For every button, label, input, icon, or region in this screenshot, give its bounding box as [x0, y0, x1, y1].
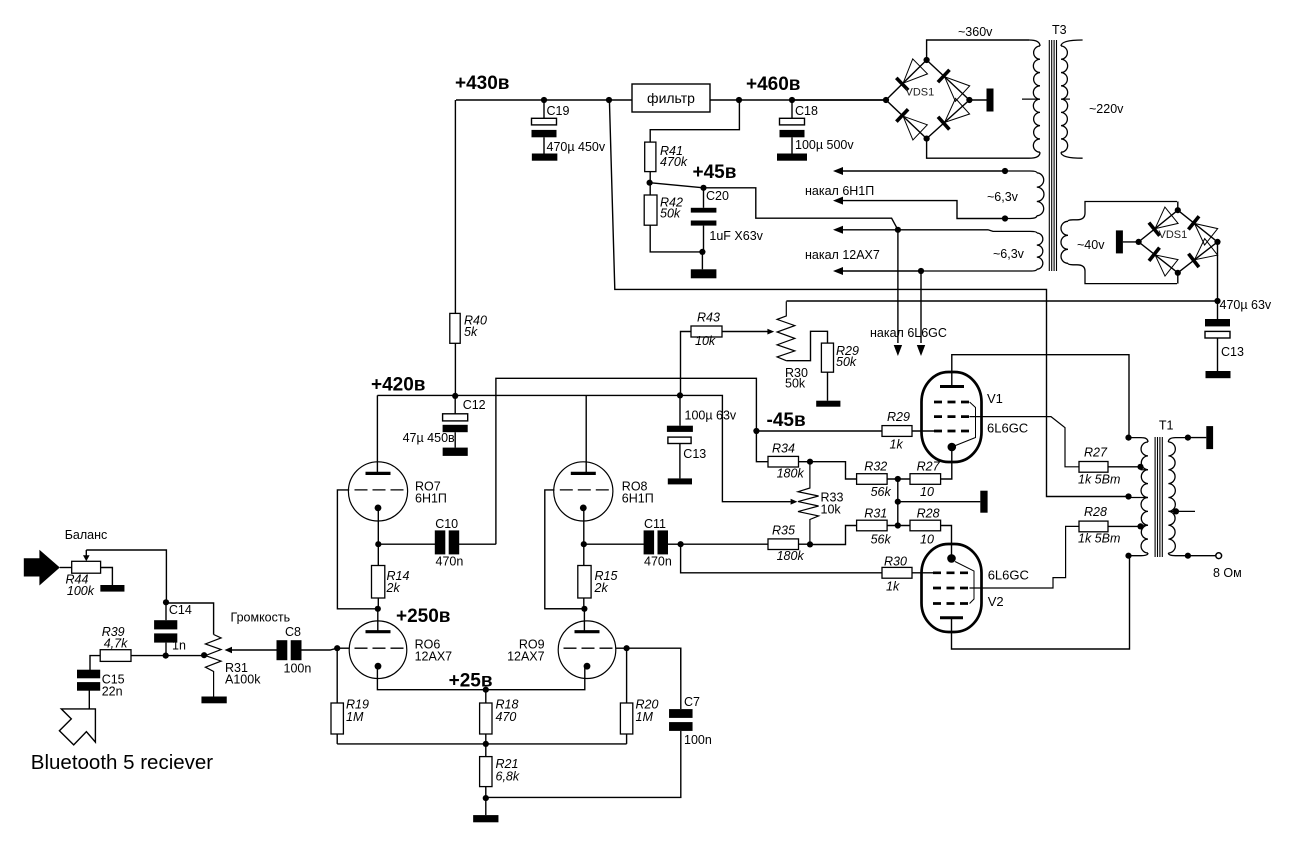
wire RO9 anode to RO8 grid: [545, 608, 585, 610]
svg-text:VDS1: VDS1: [906, 87, 935, 99]
capacitor C20 1uF: [703, 188, 705, 208]
potentiometer R33 10k: [798, 462, 819, 545]
svg-text:50k: 50k: [836, 355, 857, 369]
svg-text:A100k: A100k: [225, 673, 261, 687]
node RO6 grid: [334, 645, 340, 651]
svg-text:6Н1П: 6Н1П: [415, 491, 447, 505]
svg-text:накал 6Н1П: накал 6Н1П: [805, 184, 874, 198]
svg-text:1k 5Вт: 1k 5Вт: [1078, 532, 1120, 546]
RO7 cathode wire: [377, 507, 379, 544]
diode VDS1 upper-right: [938, 70, 950, 82]
svg-text:1M: 1M: [346, 710, 364, 724]
svg-text:C11: C11: [644, 517, 666, 531]
RO6 cathode wire: [377, 667, 485, 690]
wire R43 to R30 pot wiper: [722, 331, 768, 333]
R31 wiper arrow from C8: [231, 649, 284, 651]
tube V1 6L6GC: [922, 372, 982, 462]
resistor R29 1k grid stopper V1: [756, 430, 882, 432]
wire C10 to V1 grid line: [459, 543, 496, 545]
transformer T3 primary winding ~360v side: [1029, 40, 1040, 46]
transformer T3 aux winding ~40v: [1068, 202, 1177, 222]
node T1 tap R27: [1137, 464, 1143, 470]
node T1 primary bottom: [1125, 553, 1131, 559]
svg-text:+45в: +45в: [693, 162, 737, 183]
tube RO8: [585, 395, 587, 473]
svg-text:Баланс: Баланс: [65, 528, 108, 542]
svg-text:56k: 56k: [871, 485, 892, 499]
resistor R32 56k: [857, 474, 888, 485]
svg-text:R34: R34: [772, 441, 795, 455]
output terminal 8 Ohm: [1188, 555, 1216, 557]
node R32-R27 junction: [895, 476, 901, 482]
svg-text:10: 10: [920, 533, 934, 547]
wire R41/R42 junction to C20: [650, 183, 704, 188]
capacitor C11 470n: [584, 543, 644, 545]
wire C18 to bridge: [792, 99, 886, 101]
svg-text:100n: 100n: [684, 733, 712, 747]
resistor R27 1k 5W: [1079, 462, 1108, 473]
node R35 right: [807, 541, 813, 547]
resistor R40 5k: [450, 313, 460, 343]
svg-text:50k: 50k: [660, 207, 681, 221]
svg-text:R30: R30: [884, 555, 907, 569]
capacitor C7 100n: [627, 648, 681, 680]
svg-text:8 Ом: 8 Ом: [1213, 566, 1242, 580]
svg-text:~220v: ~220v: [1089, 102, 1124, 116]
svg-text:R27: R27: [917, 460, 941, 474]
ground bar mid: [980, 491, 987, 513]
resistor R41 470k: [645, 142, 656, 172]
node C20 top: [700, 185, 706, 191]
wire to ground bar: [898, 501, 981, 503]
V1 grids: [934, 401, 970, 404]
capacitor C10 470n: [378, 543, 435, 545]
svg-text:470µ 450v: 470µ 450v: [547, 140, 606, 154]
svg-text:12AX7: 12AX7: [415, 650, 453, 664]
svg-text:R28: R28: [1084, 505, 1107, 519]
node loudness tap: [201, 652, 207, 658]
label +420в stage: tube RO7: [376, 395, 378, 473]
node volume top: [163, 599, 169, 605]
svg-text:фильтр: фильтр: [647, 90, 695, 106]
wire V1 grid line from C10: [496, 378, 757, 544]
V1 plate: [940, 385, 964, 388]
svg-text:470k: 470k: [660, 155, 688, 169]
resistor R30 1k grid stopper V2: [681, 544, 882, 573]
svg-text:Bluetooth 5 reciever: Bluetooth 5 reciever: [31, 751, 214, 774]
ground at bias bridge left: [1123, 241, 1139, 243]
node heater1 bottom: [1002, 215, 1008, 221]
ground below C20: [701, 252, 703, 269]
R44 right to ground: [101, 568, 113, 586]
node C20 bottom: [699, 249, 705, 255]
ground below C13 470u: [1206, 371, 1231, 378]
diode VDS1 lower-left: [896, 109, 908, 121]
wire heater 6L6GC line 2: [920, 271, 922, 343]
ground below R31: [201, 697, 226, 704]
V2 grids: [933, 571, 970, 574]
node RO7 cathode / C10: [375, 541, 381, 547]
tube V2 6L6GC: [922, 544, 982, 632]
RO7 grid wire SRPP: [337, 490, 377, 609]
node +25v: [483, 687, 489, 693]
resistor R43 10k: [681, 332, 692, 396]
svg-text:1k: 1k: [886, 580, 900, 594]
node mid ground junction: [895, 499, 901, 505]
svg-text:1uF X63v: 1uF X63v: [709, 229, 763, 243]
capacitor C19: [541, 97, 547, 103]
node VDS1 vertices: [883, 97, 889, 103]
wire to R31 pot top: [166, 603, 214, 635]
svg-text:C18: C18: [795, 104, 818, 118]
svg-text:T3: T3: [1052, 23, 1067, 37]
node heater2 top: [895, 227, 901, 233]
ground below C18: [777, 154, 807, 161]
potentiometer R30 50k: [777, 301, 795, 360]
node T1 tap R28: [1137, 523, 1143, 529]
transformer T1 core: [1154, 437, 1156, 557]
svg-text:R28: R28: [917, 507, 940, 521]
svg-text:1k 5Вт: 1k 5Вт: [1078, 473, 1120, 487]
resistor R39 4,7k: [100, 650, 131, 662]
node T1 secondary bottom: [1185, 553, 1191, 559]
RO8 grid wire SRPP: [545, 490, 585, 609]
svg-text:C14: C14: [169, 603, 192, 617]
svg-text:R43: R43: [697, 311, 720, 325]
resistor R28 1k 5W: [1079, 521, 1108, 532]
svg-text:T1: T1: [1159, 419, 1174, 433]
tube RO9 12AX7: [583, 609, 585, 631]
node T1 primary top: [1125, 435, 1131, 441]
heater winding 12AX7 ~6,3v: [898, 230, 1037, 233]
wire heater 12AX7 bottom arrow: [840, 270, 921, 272]
node C12 +420v: [452, 393, 458, 399]
svg-text:22n: 22n: [102, 685, 123, 699]
svg-text:56k: 56k: [871, 533, 892, 547]
svg-text:R35: R35: [772, 524, 795, 538]
resistor R15 2k: [583, 544, 585, 565]
svg-text:R31: R31: [864, 507, 887, 521]
wire bridge bottom to transformer: [927, 139, 1029, 159]
potentiometer R31 A100k: [205, 635, 221, 697]
bridge rectifier VDS1 main: [886, 60, 927, 100]
svg-text:1M: 1M: [636, 710, 654, 724]
ground at bridge right: [969, 99, 986, 101]
diode VDS1 upper-left: [896, 78, 908, 90]
svg-text:~360v: ~360v: [958, 25, 993, 39]
svg-text:VDS1: VDS1: [1159, 229, 1188, 241]
tube RO6 12AX7: [377, 609, 379, 631]
node -45v rail right end: [1214, 298, 1220, 304]
svg-text:+430в: +430в: [455, 73, 509, 94]
resistor R42 50k: [649, 183, 651, 195]
wire +420v node to bias divider node: [377, 394, 680, 396]
svg-text:6L6GC: 6L6GC: [987, 421, 1028, 436]
diode VDS1b lower-right: [1189, 254, 1199, 267]
ground below R29 50k: [816, 401, 840, 407]
node heater2 bottom: [918, 268, 924, 274]
diode VDS1 lower-right: [938, 117, 949, 130]
resistor R19 1M: [336, 648, 338, 703]
wire +460v rail drop: [609, 100, 1128, 497]
node R34 right: [807, 459, 813, 465]
input arrow: [24, 550, 60, 586]
potentiometer R44 100k: [60, 567, 72, 569]
wire C14 to tap: [166, 655, 205, 657]
svg-text:~6,3v: ~6,3v: [987, 190, 1019, 204]
wire +45v to heater bus: [704, 188, 898, 230]
transformer T1 primary: [1129, 438, 1149, 442]
wire C7 to ground bus: [486, 731, 681, 797]
resistor R14 2k: [377, 544, 379, 565]
transformer T3 secondary ~220v: [1061, 40, 1083, 46]
svg-text:+460в: +460в: [746, 74, 800, 95]
svg-text:R27: R27: [1084, 446, 1108, 460]
arrow heater 6N1P bottom: [833, 197, 843, 205]
svg-text:R32: R32: [864, 460, 887, 474]
svg-text:1k: 1k: [890, 438, 904, 452]
node R31-R28 junction: [895, 522, 901, 528]
capacitor C8 100n: [277, 640, 288, 660]
node R41-R42 junction: [647, 180, 653, 186]
svg-text:470µ 63v: 470µ 63v: [1220, 298, 1272, 312]
diode VDS1b upper-right: [1188, 216, 1199, 229]
svg-text:V2: V2: [988, 594, 1004, 609]
resistor R28 10: [910, 520, 941, 531]
svg-text:+420в: +420в: [371, 375, 425, 396]
svg-text:V1: V1: [987, 391, 1003, 406]
node R43 / C13 100u junction: [677, 392, 683, 398]
svg-text:10: 10: [920, 485, 934, 499]
node R21 bottom: [483, 795, 489, 801]
transformer T3 core: [1048, 40, 1050, 271]
svg-text:100k: 100k: [67, 584, 95, 598]
svg-text:C10: C10: [435, 517, 458, 531]
resistor R21 6,8k: [485, 744, 487, 757]
node filter output junction: [736, 97, 742, 103]
wire R28 to V2 cathode: [941, 526, 952, 559]
svg-text:C13: C13: [1221, 345, 1244, 359]
node C14 bottom: [163, 653, 169, 659]
svg-text:2k: 2k: [594, 581, 609, 595]
capacitor C13 100µ 63v: [679, 395, 681, 425]
V2 cathode: [947, 554, 956, 563]
svg-text:12AX7: 12AX7: [507, 650, 545, 664]
RO6 grid lead: [337, 647, 349, 649]
svg-text:накал 12AX7: накал 12AX7: [805, 248, 880, 262]
svg-text:6,8k: 6,8k: [496, 770, 520, 784]
svg-text:5k: 5k: [464, 325, 478, 339]
resistor R31 56k: [810, 526, 857, 545]
svg-text:10k: 10k: [695, 334, 716, 348]
R44 wiper: [85, 550, 87, 556]
svg-text:470n: 470n: [644, 555, 672, 569]
svg-text:C7: C7: [684, 695, 700, 709]
svg-text:C12: C12: [463, 398, 486, 412]
svg-text:6L6GC: 6L6GC: [988, 568, 1029, 583]
wire R44 wiper to volume: [86, 550, 166, 602]
svg-text:Громкость: Громкость: [231, 611, 291, 625]
node T1 secondary top: [1185, 435, 1191, 441]
diode VDS1b upper-left: [1149, 223, 1160, 236]
wire bridge top to transformer ~360v: [927, 40, 1029, 60]
wire +430v rail down to R40: [454, 100, 456, 313]
node VDS1b vertices: [1136, 239, 1142, 245]
ground below C13 100u: [668, 478, 692, 484]
svg-text:C20: C20: [706, 189, 729, 203]
wire +430v top rail: [456, 99, 632, 101]
svg-text:2k: 2k: [386, 581, 401, 595]
wire filter output to R41: [650, 100, 739, 142]
svg-text:470: 470: [496, 710, 517, 724]
V2 screen wire to R28 1k: [970, 526, 1080, 588]
wire cathode resistor bus: [337, 743, 626, 745]
wire junction to R34: [756, 431, 768, 462]
arrow heater 6N1P top: [833, 167, 843, 175]
wire R27 to V1 cathode: [941, 447, 952, 479]
RO8 cathode wire: [583, 507, 585, 544]
capacitor C15 22n: [77, 670, 100, 679]
svg-text:-45в: -45в: [767, 410, 806, 431]
node T1 center tap: [1125, 493, 1131, 499]
wire heater 6N1P bottom: [840, 201, 1005, 219]
svg-text:50k: 50k: [785, 377, 806, 391]
svg-text:~40v: ~40v: [1077, 238, 1105, 252]
svg-text:R29: R29: [887, 410, 910, 424]
wire C11 to R35 node: [668, 543, 681, 545]
ground at T1 secondary top: [1188, 437, 1206, 439]
resistor R20 1M: [626, 648, 628, 703]
svg-text:1n: 1n: [172, 639, 186, 653]
resistor R35 180k: [681, 543, 768, 545]
svg-text:47µ 450в: 47µ 450в: [403, 431, 455, 445]
node RO9 grid: [624, 645, 630, 651]
wire R34 node to R32: [810, 462, 857, 479]
node RO8 cathode / C11: [581, 541, 587, 547]
heater winding 6N1P ~6,3v: [1005, 171, 1037, 173]
filter box фильтр: [632, 84, 710, 112]
svg-text:10k: 10k: [821, 503, 842, 517]
svg-text:100µ 500v: 100µ 500v: [795, 138, 854, 152]
wire R30 bottom to R29 50k: [786, 331, 827, 360]
wire bias bridge output down: [1217, 242, 1219, 301]
V1 beam plate tie: [952, 402, 976, 447]
T1 secondary tap: [1168, 510, 1195, 512]
capacitor C12 47µ 450в: [454, 396, 456, 414]
svg-text:C13: C13: [683, 447, 706, 461]
T3 secondary mid tick: [1061, 98, 1070, 100]
V2 beam plate tie: [955, 562, 974, 604]
transformer T1 secondary: [1168, 438, 1188, 442]
capacitor C18: [789, 97, 795, 103]
diode VDS1b lower-left: [1149, 248, 1160, 261]
svg-text:накал 6L6GC: накал 6L6GC: [870, 326, 947, 340]
V2 anode wire to T1: [952, 556, 1130, 649]
T1 primary taps: [1141, 469, 1149, 471]
node +430v filter input junction: [606, 97, 612, 103]
svg-text:100µ 63v: 100µ 63v: [685, 409, 737, 423]
resistor R27 10: [910, 474, 941, 485]
svg-text:C19: C19: [547, 104, 570, 118]
V2 plate: [940, 616, 963, 619]
V1 anode wire to T1: [952, 355, 1129, 438]
capacitor C14 1n: [165, 602, 167, 620]
wire -45v rail: [786, 300, 1217, 302]
svg-text:+250в: +250в: [396, 606, 450, 627]
node RO9 anode junction: [581, 606, 587, 612]
node heater1 top: [1002, 168, 1008, 174]
RO9 cathode wire: [486, 667, 585, 690]
node R18 bottom: [483, 741, 489, 747]
wire bias node to R33 wiper: [680, 395, 791, 501]
RO9 grid lead: [616, 647, 627, 649]
resistor R18 470: [485, 690, 487, 703]
wire heater 6L6GC line 1: [897, 230, 899, 343]
svg-text:180k: 180k: [777, 467, 805, 481]
svg-text:6Н1П: 6Н1П: [622, 491, 654, 505]
V1 screen wire to R27 1k: [970, 417, 1080, 467]
node V1 grid bias junction: [753, 428, 759, 434]
bridge rectifier VDS1 bias: [1139, 210, 1178, 242]
wire R32-R31 link: [897, 479, 899, 526]
svg-text:100n: 100n: [284, 662, 312, 676]
node C11 / R35 / R30: [678, 541, 684, 547]
svg-text:C8: C8: [285, 625, 301, 639]
svg-text:4,7k: 4,7k: [104, 637, 128, 651]
resistor R34 180k: [768, 456, 799, 467]
resistor R29 50k vertical: [821, 343, 833, 372]
node RO6 anode junction: [375, 606, 381, 612]
wire heater 12AX7 top arrow: [840, 229, 898, 231]
ground below R21: [485, 798, 487, 815]
svg-text:180k: 180k: [777, 549, 805, 563]
ground below C12: [443, 448, 468, 456]
svg-text:470n: 470n: [436, 555, 464, 569]
V1 cathode: [948, 443, 957, 452]
T3 primary mid tick: [1022, 98, 1040, 100]
wire heater 6N1P top: [840, 170, 1005, 172]
ground below C19: [532, 154, 558, 161]
bluetooth receiver symbol: [59, 709, 95, 745]
svg-text:~6,3v: ~6,3v: [993, 247, 1025, 261]
